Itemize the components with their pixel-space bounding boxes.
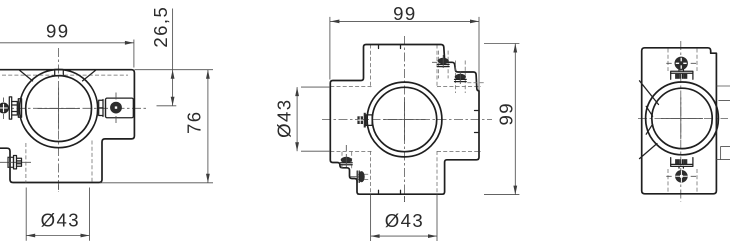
svg-text:Ø43: Ø43 (385, 210, 424, 231)
svg-text:76: 76 (183, 111, 204, 134)
svg-text:99: 99 (393, 3, 416, 24)
svg-text:99: 99 (46, 20, 69, 41)
svg-text:26,5: 26,5 (150, 6, 171, 48)
svg-text:99: 99 (495, 102, 516, 125)
svg-text:Ø43: Ø43 (41, 209, 80, 230)
svg-text:Ø43: Ø43 (273, 99, 294, 138)
